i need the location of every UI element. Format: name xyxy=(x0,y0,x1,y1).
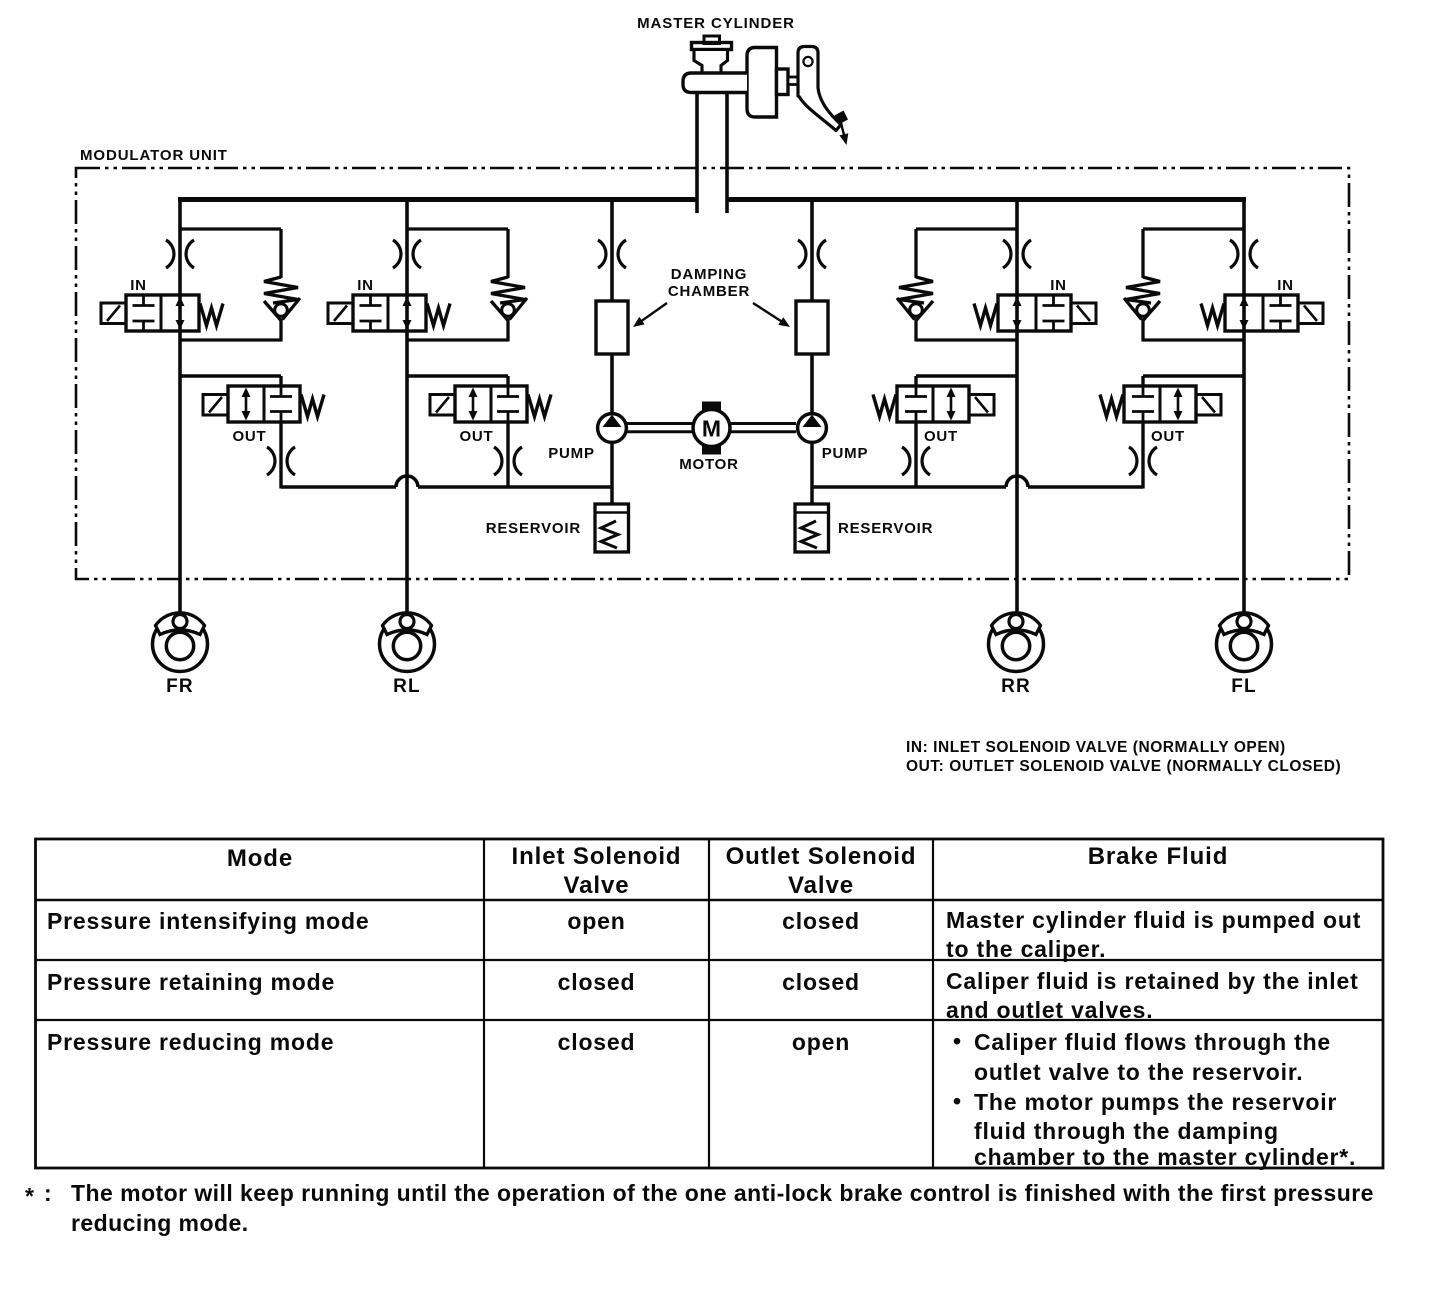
label OUT (FR) xyxy=(232,428,266,445)
svg-text:to the caliper.: to the caliper. xyxy=(946,936,1106,962)
outlet solenoid valve OUT (FL) xyxy=(1100,386,1221,422)
inlet solenoid valve IN (FR) xyxy=(101,295,223,331)
svg-text:IN: IN xyxy=(357,277,374,294)
union fitting on RL main line xyxy=(393,240,421,268)
svg-text:•: • xyxy=(953,1028,962,1054)
damping chamber (right) xyxy=(796,301,828,354)
wire: FL check valve branch xyxy=(1143,229,1244,342)
reservoir (left) xyxy=(595,504,629,552)
union fitting below OUT valve (RR) xyxy=(902,447,930,475)
wire: left pump suction xyxy=(610,442,614,504)
inlet solenoid valve IN (RR) xyxy=(974,295,1096,331)
modulator unit boundary (chain line) xyxy=(76,168,1349,579)
label OUT (FL) xyxy=(1151,428,1185,445)
table frame xyxy=(36,839,1384,1168)
svg-text:OUT: OUT xyxy=(232,428,266,445)
inlet solenoid valve IN (RL) xyxy=(328,295,450,331)
svg-text:Mode: Mode xyxy=(227,845,293,872)
label FL xyxy=(1231,676,1257,697)
wire: FR channel main line xyxy=(178,200,182,618)
svg-text:closed: closed xyxy=(782,969,860,995)
wire: RL channel main line xyxy=(405,200,409,618)
svg-text:DAMPING: DAMPING xyxy=(671,266,747,283)
svg-text:PUMP: PUMP xyxy=(822,445,869,462)
pedal press arrow xyxy=(839,121,848,145)
svg-text:fluid through the damping: fluid through the damping xyxy=(974,1118,1279,1144)
reservoir (right) xyxy=(795,504,829,552)
union fitting on FL main line xyxy=(1230,240,1258,268)
svg-text:IN: INLET SOLENOID VALVE (NORM: IN: INLET SOLENOID VALVE (NORMALLY OPEN) xyxy=(906,739,1286,756)
wire: master cylinder outlet 2 xyxy=(725,93,729,214)
check valve (FL) xyxy=(1124,277,1160,321)
outlet solenoid valve OUT (RR) xyxy=(873,386,994,422)
pump (right) xyxy=(798,414,827,443)
union fitting below OUT valve (FL) xyxy=(1129,447,1157,475)
footnote xyxy=(25,1180,1374,1236)
wire: left circuit bus xyxy=(178,197,699,202)
damping chamber (left) xyxy=(596,301,628,354)
svg-text:Valve: Valve xyxy=(564,872,630,899)
legend note IN xyxy=(906,739,1286,756)
wire: FR outlet branch xyxy=(180,376,281,489)
label DAMPING CHAMBER xyxy=(668,266,750,300)
svg-text::: : xyxy=(44,1180,52,1206)
motor shaft (right) xyxy=(730,424,796,432)
arrow to right damping chamber xyxy=(753,303,790,327)
svg-text:Outlet Solenoid: Outlet Solenoid xyxy=(726,843,917,870)
svg-text:RESERVOIR: RESERVOIR xyxy=(486,520,581,537)
wire: master cylinder outlet 1 xyxy=(695,93,699,214)
svg-text:Caliper fluid is retained by t: Caliper fluid is retained by the inlet xyxy=(946,968,1359,994)
svg-text:MODULATOR UNIT: MODULATOR UNIT xyxy=(80,147,228,164)
label PUMP (left) xyxy=(548,445,595,462)
svg-text:Master cylinder fluid is pumpe: Master cylinder fluid is pumped out xyxy=(946,907,1361,933)
svg-text:closed: closed xyxy=(782,908,860,934)
wheel brake caliper (RR) xyxy=(989,613,1044,672)
svg-text:closed: closed xyxy=(558,969,636,995)
svg-text:*: * xyxy=(25,1183,34,1209)
label RL xyxy=(393,676,421,697)
label IN (FL) xyxy=(1277,277,1294,294)
wire: RR channel main line xyxy=(1015,200,1019,618)
svg-text:Valve: Valve xyxy=(788,872,854,899)
union fitting below OUT valve (FR) xyxy=(267,447,295,475)
svg-text:IN: IN xyxy=(1277,277,1294,294)
wire: left damping chamber column xyxy=(610,200,614,415)
label RESERVOIR (left) xyxy=(486,520,581,537)
wheel brake caliper (FL) xyxy=(1217,613,1272,672)
svg-text:MOTOR: MOTOR xyxy=(679,456,739,473)
union fitting below OUT valve (RL) xyxy=(494,447,522,475)
wire: FL outlet branch xyxy=(1143,376,1244,489)
wire: right return line to pump (cross-over at RR) xyxy=(812,476,1143,487)
svg-text:OUT: OUTLET SOLENOID VALVE (NO: OUT: OUTLET SOLENOID VALVE (NORMALLY CLO… xyxy=(906,758,1341,775)
svg-text:FL: FL xyxy=(1231,676,1257,697)
wire: right pump suction xyxy=(810,442,814,504)
outlet solenoid valve OUT (FR) xyxy=(203,386,324,422)
svg-text:Caliper fluid flows through th: Caliper fluid flows through the xyxy=(974,1029,1331,1055)
wire: RR outlet branch xyxy=(916,376,1017,489)
svg-text:FR: FR xyxy=(166,676,194,697)
wheel brake caliper (FR) xyxy=(153,613,208,672)
label IN (RR) xyxy=(1050,277,1067,294)
svg-text:RESERVOIR: RESERVOIR xyxy=(838,520,933,537)
wire: right circuit bus xyxy=(726,197,1247,202)
union fitting on FR main line xyxy=(166,240,194,268)
svg-text:Pressure reducing mode: Pressure reducing mode xyxy=(47,1029,334,1055)
table row 3: pressure reducing xyxy=(47,1028,1356,1170)
wheel brake caliper (RL) xyxy=(380,613,435,672)
svg-text:open: open xyxy=(792,1029,850,1055)
label FR xyxy=(166,676,194,697)
svg-text:RL: RL xyxy=(393,676,421,697)
label PUMP (right) xyxy=(822,445,869,462)
svg-text:IN: IN xyxy=(1050,277,1067,294)
wire: RR check valve branch xyxy=(916,229,1017,342)
check valve (RL) xyxy=(491,277,527,321)
outlet solenoid valve OUT (RL) xyxy=(430,386,551,422)
svg-text:chamber to the master cylinder: chamber to the master cylinder*. xyxy=(974,1144,1356,1170)
union fitting on RR main line xyxy=(1003,240,1031,268)
svg-text:and outlet valves.: and outlet valves. xyxy=(946,997,1153,1023)
svg-text:Pressure retaining mode: Pressure retaining mode xyxy=(47,969,335,995)
svg-text:outlet valve to the reservoir.: outlet valve to the reservoir. xyxy=(974,1059,1304,1085)
check valve (FR) xyxy=(264,277,300,321)
label IN (RL) xyxy=(357,277,374,294)
arrow to left damping chamber xyxy=(633,303,667,327)
svg-text:CHAMBER: CHAMBER xyxy=(668,283,750,300)
svg-text:MASTER CYLINDER: MASTER CYLINDER xyxy=(637,15,795,32)
svg-text:The motor will keep running un: The motor will keep running until the op… xyxy=(71,1180,1374,1206)
union fitting on left damping column xyxy=(598,240,626,268)
table row 1: pressure intensifying xyxy=(47,907,1361,962)
wire: RL outlet branch xyxy=(407,376,508,489)
svg-text:Brake Fluid: Brake Fluid xyxy=(1088,843,1229,870)
svg-text:OUT: OUT xyxy=(1151,428,1185,445)
table header row xyxy=(227,843,1228,899)
svg-text:•: • xyxy=(953,1088,962,1114)
label MOTOR xyxy=(679,456,739,473)
motor shaft (left) xyxy=(627,424,693,432)
svg-text:Pressure intensifying mode: Pressure intensifying mode xyxy=(47,908,369,934)
wire: FR check valve branch xyxy=(180,229,281,342)
check valve (RR) xyxy=(897,277,933,321)
label RR xyxy=(1001,676,1031,697)
svg-text:OUT: OUT xyxy=(924,428,958,445)
brake pedal xyxy=(798,47,848,131)
svg-text:reducing mode.: reducing mode. xyxy=(71,1210,249,1236)
label OUT (RR) xyxy=(924,428,958,445)
inlet solenoid valve IN (FL) xyxy=(1201,295,1323,331)
union fitting on right damping column xyxy=(798,240,826,268)
label IN (FR) xyxy=(130,277,147,294)
motor M xyxy=(693,402,730,455)
svg-text:M: M xyxy=(702,416,721,442)
label OUT (RL) xyxy=(459,428,493,445)
table row 2: pressure retaining xyxy=(47,968,1359,1023)
svg-text:PUMP: PUMP xyxy=(548,445,595,462)
master cylinder xyxy=(683,36,808,117)
wire: FL channel main line xyxy=(1242,200,1246,618)
label RESERVOIR (right) xyxy=(838,520,933,537)
wire: right damping chamber column xyxy=(810,200,814,415)
svg-text:IN: IN xyxy=(130,277,147,294)
svg-text:open: open xyxy=(567,908,625,934)
pump (left) xyxy=(598,414,627,443)
legend note OUT xyxy=(906,758,1341,775)
label MODULATOR UNIT xyxy=(80,147,228,164)
label MASTER CYLINDER xyxy=(637,15,795,32)
svg-text:The motor pumps the reservoir: The motor pumps the reservoir xyxy=(974,1089,1337,1115)
svg-text:Inlet Solenoid: Inlet Solenoid xyxy=(512,843,682,870)
svg-text:OUT: OUT xyxy=(459,428,493,445)
svg-text:closed: closed xyxy=(558,1029,636,1055)
svg-text:RR: RR xyxy=(1001,676,1031,697)
wire: RL check valve branch xyxy=(407,229,508,342)
wire: left return line to pump (cross-over at RL) xyxy=(281,476,612,487)
